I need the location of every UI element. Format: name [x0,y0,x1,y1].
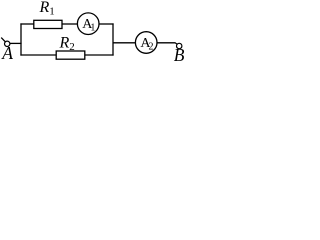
terminal A [5,41,10,46]
svg-text:A1: A1 [82,17,95,33]
resistor R1 [34,20,62,28]
resistor R2 [56,51,85,59]
wire right vertical junction [112,23,114,55]
svg-text:A: A [1,43,13,63]
ammeter A1 [77,13,99,35]
wire R2 to right junction [85,54,114,56]
wire top rail left [20,23,33,25]
svg-text:R2: R2 [59,35,75,54]
terminal B lead [175,43,177,45]
wire R1 to A1 [62,23,77,25]
svg-text:A2: A2 [140,36,153,52]
wire left vertical junction [20,23,22,55]
terminal A lead [1,38,5,42]
svg-text:R1: R1 [39,0,55,18]
wire A to left junction [10,42,22,44]
wire bottom rail left [20,54,56,56]
wire right junction to A2 [113,42,136,44]
ammeter A2 [135,32,157,54]
wire A1 to right junction [99,23,114,25]
terminal B [177,43,182,48]
svg-text:B: B [174,45,185,65]
wire A2 to terminal B [157,42,175,44]
